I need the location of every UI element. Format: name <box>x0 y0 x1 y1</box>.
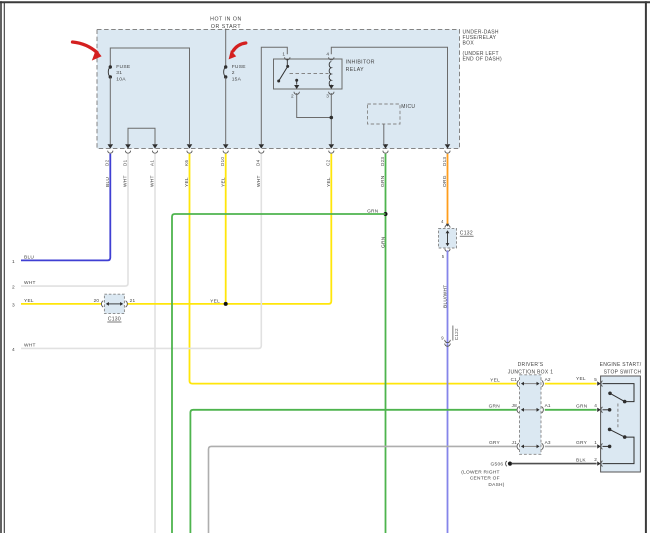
svg-text:2: 2 <box>232 70 235 76</box>
svg-text:21: 21 <box>130 298 136 303</box>
svg-text:HOT IN ON: HOT IN ON <box>210 16 242 22</box>
relay mech link dashed <box>290 73 329 75</box>
svg-text:C122: C122 <box>454 328 459 340</box>
inline connector C122 arcs <box>445 340 451 343</box>
pin D4 arrow <box>259 144 265 148</box>
relay pin 1 terminal <box>285 57 290 60</box>
wire relay pin1 to D4 <box>261 47 287 144</box>
switch pin1 contact <box>603 445 610 447</box>
svg-text:WHT: WHT <box>24 280 36 286</box>
switch internal pin5 path <box>603 384 635 402</box>
switch internal pin2 path <box>603 437 635 464</box>
red arrow at fuse 31 <box>73 42 98 53</box>
svg-text:FUSE: FUSE <box>116 64 131 70</box>
pin D1 arrow <box>125 144 131 148</box>
junction relay pins 2-3 <box>330 116 334 120</box>
fuse F2 <box>224 65 227 68</box>
wire MICU to D23 <box>383 124 385 144</box>
junction box row J1 right paren <box>542 443 544 449</box>
under-dash fuse/relay box <box>97 30 460 149</box>
svg-text:MICU: MICU <box>401 104 415 110</box>
pin D13 terminal arc <box>445 151 450 154</box>
junction YEL row3-D10 <box>224 302 228 306</box>
svg-text:D1: D1 <box>122 159 127 166</box>
switch pin 4 entry <box>597 408 601 412</box>
wire BLU/WHT vertical <box>447 250 449 533</box>
wire GRN row to junction box <box>190 410 516 533</box>
MICU box <box>368 104 401 124</box>
svg-text:2: 2 <box>291 94 294 99</box>
svg-text:4: 4 <box>12 347 15 353</box>
page border top <box>0 1 650 3</box>
svg-text:1: 1 <box>594 440 597 445</box>
junction box row J8 right paren <box>542 407 544 413</box>
svg-text:GRN: GRN <box>380 236 386 248</box>
relay pin 3 arrow <box>330 85 332 87</box>
switch pin 1 entry <box>597 444 601 448</box>
svg-text:D13: D13 <box>442 157 447 166</box>
relay pin 2 contact <box>295 79 298 82</box>
svg-text:5: 5 <box>442 254 445 259</box>
switch bottom blade <box>608 428 612 432</box>
relay pin 2 terminal <box>294 92 299 95</box>
svg-text:YEL: YEL <box>490 377 500 383</box>
page border left inner <box>3 2 5 533</box>
svg-text:15A: 15A <box>232 76 242 82</box>
svg-text:D4: D4 <box>256 159 261 166</box>
wire WHT D4-to-terminal4 <box>21 154 261 349</box>
svg-text:G506: G506 <box>491 462 504 468</box>
pin D13 arrow <box>445 144 451 148</box>
svg-text:YEL: YEL <box>576 376 586 382</box>
wire fuse2 to pin D10 <box>225 78 227 145</box>
wire YEL row3 right <box>127 154 331 304</box>
pin D23 arrow <box>383 144 389 148</box>
connector C130 left paren <box>101 301 103 307</box>
wire GRN to switch <box>545 409 597 411</box>
wire WHT D1-to-terminal2 <box>21 154 128 286</box>
svg-text:GRY: GRY <box>576 440 588 446</box>
switch mech link <box>617 404 619 430</box>
svg-text:GRY: GRY <box>489 440 501 446</box>
wire YEL row3 left <box>21 303 101 305</box>
svg-text:BLK: BLK <box>576 457 586 463</box>
svg-text:FUSE: FUSE <box>232 64 247 70</box>
svg-text:BOX: BOX <box>463 40 475 46</box>
svg-text:2: 2 <box>12 285 15 291</box>
svg-text:A1: A1 <box>149 160 154 166</box>
connector C132 top arc <box>445 225 450 228</box>
pin A1 arrow <box>152 144 158 148</box>
junction box <box>520 375 542 455</box>
svg-text:10A: 10A <box>116 76 126 82</box>
svg-text:C130: C130 <box>108 316 121 322</box>
svg-text:INHIBITOR: INHIBITOR <box>346 60 375 66</box>
wire GRY from bottom to junction box <box>209 446 517 533</box>
wire ORG D13 vertical <box>447 154 449 224</box>
junction box row J1 left paren <box>517 443 519 449</box>
svg-text:GRN: GRN <box>576 404 588 410</box>
ground G506 <box>506 461 507 466</box>
pin C2 terminal arc <box>329 151 334 154</box>
svg-text:4: 4 <box>441 219 444 224</box>
connector C130 box <box>104 294 124 313</box>
inhibitor relay U1 <box>274 59 343 89</box>
svg-text:4: 4 <box>326 52 329 57</box>
pin D1 terminal arc <box>125 151 130 154</box>
svg-text:1: 1 <box>282 52 285 57</box>
svg-text:A2: A2 <box>545 377 551 382</box>
junction box row C1 left paren <box>517 380 519 386</box>
svg-text:GRN: GRN <box>489 404 501 410</box>
red arrow at fuse 2 <box>233 43 246 51</box>
junction box row C1 arrows <box>522 383 538 385</box>
svg-text:BLU: BLU <box>24 254 34 260</box>
svg-text:C1: C1 <box>511 377 518 382</box>
svg-text:D23: D23 <box>380 157 385 166</box>
wire jumper D1-A1 <box>128 128 155 144</box>
page border right <box>645 1 647 533</box>
svg-text:20: 20 <box>94 298 100 303</box>
svg-text:3: 3 <box>12 303 15 309</box>
switch pin4 contact <box>603 409 610 411</box>
wire WHT A1 vertical <box>154 154 156 533</box>
pin K6 terminal arc <box>187 151 192 154</box>
wire BLK to switch <box>512 463 597 465</box>
svg-text:YEL: YEL <box>24 298 34 304</box>
svg-text:C132: C132 <box>460 231 473 237</box>
wire BLU D2-to-terminal1 <box>21 154 110 261</box>
wire GRN D23 vertical <box>385 154 387 533</box>
relay coil <box>329 62 331 87</box>
wire stub D23 under MICU <box>385 143 387 145</box>
svg-text:ENGINE START/: ENGINE START/ <box>600 362 642 368</box>
pin A1 terminal arc <box>152 151 157 154</box>
connector C130 internal arrows <box>108 303 122 305</box>
switch pin 2 entry <box>597 461 601 465</box>
wire top rail fuse31 to K6 <box>110 48 189 144</box>
wire fuse31 to pin D2 <box>109 78 111 145</box>
svg-text:WHT: WHT <box>24 342 36 348</box>
svg-text:A1: A1 <box>545 403 551 408</box>
page border left outer <box>0 1 2 533</box>
wire GRY to switch <box>545 445 597 447</box>
switch top blade <box>623 400 627 404</box>
wire YEL to switch <box>545 383 597 385</box>
junction box row J8 left paren <box>517 407 519 413</box>
svg-text:(LOWER RIGHT: (LOWER RIGHT <box>461 470 499 476</box>
svg-text:CENTER OF: CENTER OF <box>470 476 500 482</box>
svg-text:RELAY: RELAY <box>346 67 365 73</box>
svg-text:END OF DASH): END OF DASH) <box>463 56 502 62</box>
svg-text:2: 2 <box>594 457 597 462</box>
svg-text:DRIVER’S: DRIVER’S <box>518 362 544 368</box>
junction box row C1 right paren <box>542 380 544 386</box>
connector C132 top arrow <box>446 224 449 227</box>
svg-text:K6: K6 <box>184 160 189 166</box>
junction box row J8 arrows <box>522 409 538 411</box>
svg-text:C2: C2 <box>326 159 331 166</box>
connector C132 bottom arc <box>445 249 450 252</box>
wire hot feed to fuse 2 <box>225 29 227 66</box>
switch pin 5 entry <box>597 381 601 385</box>
connector C132 box <box>439 228 457 248</box>
svg-text:A3: A3 <box>545 440 551 445</box>
wire YEL K6 to junction box <box>190 154 517 384</box>
pin D2 terminal arc <box>108 151 113 154</box>
svg-text:YEL: YEL <box>210 298 220 304</box>
wire relay pin3 to C2 <box>330 93 332 144</box>
svg-text:STOP SWITCH: STOP SWITCH <box>604 369 642 375</box>
connector C132 internal <box>447 232 449 244</box>
svg-text:1: 1 <box>12 259 15 265</box>
wire GRN branch to bottom <box>172 214 386 533</box>
fuse F31 <box>109 65 112 68</box>
svg-text:9: 9 <box>441 335 444 340</box>
svg-text:D2: D2 <box>105 159 110 166</box>
pin D4 terminal arc <box>259 151 264 154</box>
pin C2 arrow <box>329 144 335 148</box>
svg-text:BLU/WHT: BLU/WHT <box>443 285 449 308</box>
relay switch contact <box>286 59 288 66</box>
pin D23 terminal arc <box>383 151 388 154</box>
svg-text:J8: J8 <box>512 403 518 408</box>
svg-text:DASH): DASH) <box>488 482 504 488</box>
engine start/stop switch box <box>601 376 641 472</box>
connector C130 right paren <box>126 301 128 307</box>
pin K6 arrow <box>187 144 193 148</box>
relay pin 3 terminal <box>329 92 334 95</box>
svg-text:3: 3 <box>326 94 329 99</box>
pin D10 arrow <box>223 144 229 148</box>
wire relay pin2 to junction <box>297 93 332 118</box>
pin D10 terminal arc <box>223 151 228 154</box>
svg-text:31: 31 <box>116 70 122 76</box>
wire YEL D10 vertical <box>225 154 227 304</box>
svg-text:4: 4 <box>594 403 597 408</box>
junction GRN branch <box>384 212 388 216</box>
svg-text:5: 5 <box>594 377 597 382</box>
relay pin 4 terminal <box>329 57 334 60</box>
junction box row J1 arrows <box>522 445 538 447</box>
svg-text:J1: J1 <box>512 440 518 445</box>
wire relay pin4 rail to D13 <box>331 47 447 144</box>
svg-text:D10: D10 <box>220 157 225 166</box>
pin D2 arrow <box>108 144 114 148</box>
